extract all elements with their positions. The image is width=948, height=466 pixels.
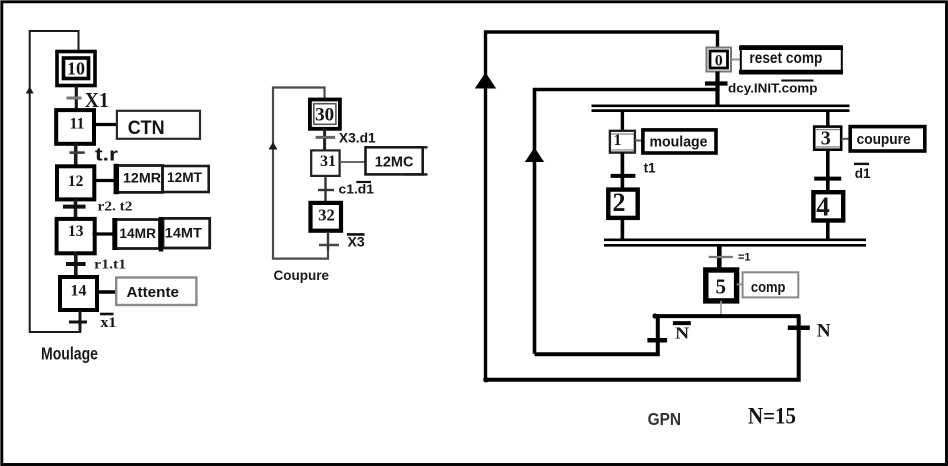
action box 14MT — [161, 217, 210, 252]
wire branch2 from bar to step3 — [826, 111, 829, 127]
svg-text:14MT: 14MT — [165, 225, 202, 241]
svg-text:d1: d1 — [855, 166, 871, 181]
step 3 — [814, 127, 841, 150]
wire step13 to action boxes — [93, 232, 117, 235]
svg-text:t.r: t.r — [95, 144, 118, 164]
svg-text:t1: t1 — [644, 160, 656, 175]
label Moulage — [41, 344, 98, 364]
svg-text:10: 10 — [67, 59, 85, 79]
transition X3.d1 crossbar — [316, 136, 336, 139]
action box moulage — [643, 130, 716, 153]
label =1 — [738, 251, 751, 263]
svg-text:r2. t2: r2. t2 — [98, 200, 133, 215]
action box comp — [743, 272, 799, 297]
wire step3 to action coupure — [841, 138, 850, 140]
label X3 (negated) — [347, 234, 365, 250]
svg-text:1: 1 — [614, 132, 622, 149]
label r1.t1 — [94, 258, 126, 273]
svg-text:14MR: 14MR — [119, 225, 156, 241]
label r2.t2 — [98, 200, 133, 215]
action box 14MR — [115, 218, 160, 250]
wire step0 to reset comp — [731, 59, 741, 61]
svg-text:x1: x1 — [100, 315, 116, 331]
svg-text:N: N — [817, 320, 831, 341]
svg-text:coupure: coupure — [857, 131, 911, 148]
label N-bar (negated) — [673, 323, 691, 343]
transition t1 crossbar — [611, 174, 636, 178]
svg-text:moulage: moulage — [650, 133, 708, 150]
label t1 — [644, 160, 656, 175]
transition d1 crossbar — [814, 177, 841, 181]
svg-text:11: 11 — [69, 116, 84, 133]
wire step31 to action 12MC — [340, 161, 366, 163]
svg-text:32: 32 — [318, 205, 335, 224]
arrowhead up on left return wire — [26, 87, 34, 94]
wire step12 to action boxes — [94, 179, 119, 182]
wire loop left chart — [30, 31, 80, 332]
svg-text:reset comp: reset comp — [749, 50, 822, 67]
transition r1.t1 crossbar — [66, 262, 86, 266]
transition r2.t2 crossbar — [63, 205, 86, 209]
wire step1 to transition t1 — [621, 153, 625, 190]
label dcy.INIT.comp (comp negated) — [728, 81, 818, 96]
action box 12MR — [116, 164, 162, 194]
action box 12MT — [163, 166, 209, 192]
svg-text:Attente: Attente — [127, 285, 180, 301]
transition dcy crossbar — [705, 81, 728, 85]
svg-text:12MR: 12MR — [123, 169, 161, 185]
step 30 (initial step, double border) — [310, 100, 340, 129]
OR divergence bar — [654, 314, 800, 318]
transition x1 crossbar — [69, 321, 87, 324]
wire step0 down to AND divergence — [715, 72, 719, 107]
wire N-bar branch down — [535, 316, 658, 354]
svg-text:X3: X3 — [348, 234, 365, 250]
action box 12MC — [366, 147, 428, 174]
svg-text:c1.d1: c1.d1 — [339, 183, 375, 197]
svg-text:4: 4 — [816, 191, 830, 221]
wire step14 to transition x1 — [79, 310, 82, 332]
svg-text:CTN: CTN — [128, 118, 165, 139]
svg-text:N: N — [675, 324, 690, 343]
label GPN — [648, 409, 682, 429]
wire convergence to step5 — [717, 245, 722, 270]
wire top loop to step0 — [486, 32, 718, 88]
left return wire — [484, 88, 487, 380]
wire step4 to AND convergence — [826, 221, 830, 240]
label x1 (negated) — [100, 314, 116, 331]
wire N-bar return re-entry — [535, 90, 717, 354]
junction dot bottom left — [483, 377, 489, 383]
transition X1 crossbar — [67, 97, 82, 100]
transition c1.d1 crossbar — [318, 189, 334, 191]
svg-text:dcy.INIT.comp: dcy.INIT.comp — [728, 82, 818, 96]
wire step11 to transition t.r — [74, 143, 78, 167]
label N=15 — [748, 404, 796, 429]
svg-text:comp: comp — [751, 279, 786, 296]
svg-text:Coupure: Coupure — [274, 267, 330, 283]
step 12 — [57, 166, 94, 199]
svg-text:3: 3 — [821, 128, 831, 150]
transition N-bar crossbar — [647, 338, 667, 343]
transition N crossbar — [788, 325, 810, 330]
svg-text:0: 0 — [715, 53, 723, 70]
wire step31 to transition c1.d1 — [324, 175, 326, 203]
svg-text:r1.t1: r1.t1 — [94, 258, 126, 273]
wire step14 to action Attente — [97, 290, 116, 293]
step 13 — [57, 219, 95, 253]
svg-text:12: 12 — [68, 173, 84, 190]
wire step5 to action comp — [737, 283, 743, 285]
svg-text:N=15: N=15 — [748, 404, 796, 429]
wire step5 down to OR divergence — [720, 301, 722, 316]
step 0 (initial, double border) — [707, 48, 732, 72]
action box CTN — [117, 111, 200, 139]
label t.r — [95, 144, 118, 164]
label X1 — [85, 88, 109, 112]
action box Attente — [116, 278, 196, 306]
svg-text:Moulage: Moulage — [41, 344, 98, 364]
svg-text:14: 14 — [71, 283, 87, 300]
big arrowhead up on N-bar return wire — [525, 148, 544, 163]
wire step3 to transition d1 — [826, 150, 830, 193]
big arrowhead up — [475, 73, 496, 89]
label c1.d1 (d1 negated) — [339, 182, 375, 197]
action box coupure — [850, 127, 925, 151]
svg-text:2: 2 — [613, 188, 626, 217]
label d1 (negated) — [854, 164, 871, 181]
AND divergence double bar — [592, 106, 850, 111]
wire branch1 from bar to step1 — [621, 111, 624, 131]
transition X3n crossbar — [319, 244, 339, 246]
wire step2 to AND convergence — [621, 218, 625, 240]
step 4 — [813, 191, 843, 221]
svg-text:13: 13 — [68, 223, 84, 240]
wire step13 to transition r1.t1 — [74, 253, 78, 278]
step 2 — [608, 188, 637, 218]
step 10 (initial step, double border) — [57, 52, 95, 86]
wire step12 to transition r2.t2 — [74, 199, 78, 220]
step 31 — [311, 150, 339, 176]
junction dot left — [652, 313, 657, 318]
step 14 — [60, 277, 97, 310]
wire step32 to transition X3n — [327, 232, 329, 251]
wire step10 to transition X1 — [75, 86, 78, 111]
svg-text:30: 30 — [315, 104, 334, 125]
transition =1 crossbar — [709, 256, 733, 258]
svg-text:12MT: 12MT — [167, 169, 202, 185]
AND convergence double bar — [604, 240, 866, 246]
label N — [817, 320, 831, 341]
wire step11 to action CTN — [93, 123, 117, 126]
label Coupure — [274, 267, 330, 283]
wire step30 to transition X3.d1 — [323, 129, 326, 151]
step 32 — [311, 203, 342, 231]
wire loop middle chart — [273, 88, 328, 259]
transition t.r crossbar — [70, 151, 85, 154]
svg-text:=1: =1 — [738, 251, 751, 263]
step 11 — [56, 110, 94, 144]
arrowhead up on middle return wire — [269, 142, 278, 150]
step 1 — [610, 131, 635, 153]
svg-text:12MC: 12MC — [375, 154, 414, 171]
wire N branch down — [486, 316, 799, 380]
svg-text:X3.d1: X3.d1 — [339, 131, 376, 146]
wire step1 to action moulage — [635, 140, 643, 142]
step 5 — [706, 270, 737, 301]
svg-text:GPN: GPN — [648, 409, 682, 429]
svg-text:5: 5 — [716, 274, 727, 298]
svg-text:31: 31 — [320, 153, 336, 170]
action box reset comp — [739, 46, 843, 73]
label X3.d1 — [339, 131, 376, 146]
